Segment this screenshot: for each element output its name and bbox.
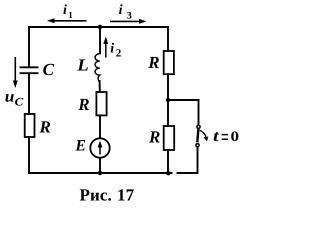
svg-text:i: i [63, 3, 67, 18]
source E circle [90, 138, 109, 157]
svg-text:C: C [15, 96, 24, 108]
source E arrow [98, 141, 103, 155]
resistor R3 body (right top) [164, 51, 174, 74]
svg-text:i: i [110, 42, 114, 57]
wire switch branch upper vertical [198, 100, 200, 125]
node right (junction dot) [166, 98, 170, 102]
wire left branch upper (corner to capacitor) [28, 27, 30, 67]
wire left branch mid (capacitor to resistor) [28, 74, 30, 114]
capacitor C plates [21, 67, 38, 73]
inductor L coil [95, 54, 100, 82]
wire bottom right segment [178, 172, 198, 174]
wire switch branch top horizontal [168, 99, 199, 101]
svg-text:t: t [213, 128, 219, 145]
svg-text:i: i [119, 3, 123, 18]
svg-text:Рис. 17: Рис. 17 [80, 185, 135, 204]
voltage arrow uC [13, 57, 18, 88]
switch S contact bottom [196, 144, 199, 147]
svg-text:R: R [148, 127, 160, 146]
svg-text:1: 1 [68, 10, 73, 20]
wire top horizontal [29, 26, 168, 28]
switch S motion arc arrow [200, 130, 209, 141]
resistor R4 body (right bottom) [164, 126, 175, 150]
wire bottom horizontal [29, 172, 172, 174]
wire left branch lower (resistor to bottom) [28, 137, 30, 173]
svg-text:3: 3 [127, 10, 132, 21]
wire middle branch (inductor to resistor) [99, 81, 101, 92]
wire middle branch lower (source to bottom) [99, 158, 101, 173]
wire middle branch upper (node to inductor) [99, 27, 101, 54]
wire middle branch (resistor to source) [99, 115, 101, 138]
current arrow i3 [110, 19, 147, 24]
wire right branch upper (top to resistor) [167, 27, 169, 51]
svg-text:2: 2 [116, 48, 122, 60]
resistor R2 body (middle) [96, 92, 106, 115]
svg-text:u: u [5, 88, 15, 105]
node bottom middle (junction dot) [98, 171, 102, 175]
node top (junction dot) [98, 25, 102, 29]
node bottom right (junction dot) [166, 171, 170, 175]
resistor R1 body (left) [25, 114, 35, 137]
svg-text:E: E [74, 138, 86, 155]
svg-text:R: R [147, 53, 159, 72]
wire right branch lower (resistor to bottom) [167, 150, 169, 173]
svg-text:0: 0 [231, 129, 240, 145]
wire switch branch lower vertical [197, 148, 199, 173]
wire right branch (resistor to node) [167, 74, 169, 100]
switch S contact top [197, 125, 200, 128]
svg-text:R: R [39, 117, 51, 136]
current arrow i2 [103, 37, 108, 58]
svg-text:C: C [43, 60, 55, 79]
switch S blade [197, 129, 198, 143]
svg-text:L: L [76, 56, 89, 75]
wire right branch (node to resistor R4) [167, 100, 169, 126]
svg-text:R: R [77, 95, 89, 114]
current arrow i1 [47, 18, 87, 23]
